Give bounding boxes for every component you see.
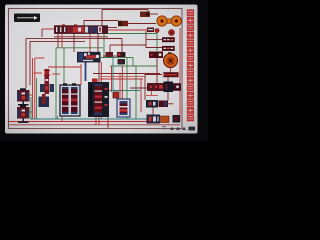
wire: red mid header: [100, 78, 143, 80]
wire: red mid-left header: [48, 66, 81, 68]
legend label (black arrow bar): [14, 14, 40, 23]
wire: top distribution line: [102, 9, 148, 11]
accumulator 1: [17, 88, 30, 105]
wire: teal bottom bus: [30, 118, 148, 120]
wire: red drop pair to servo: [121, 66, 123, 99]
wire: clutch row interlink: [152, 108, 154, 115]
wire: top line left drop: [101, 10, 103, 28]
wire: valve red branch right: [52, 73, 60, 75]
wire: green lower header: [110, 65, 158, 67]
wire: dark riser right: [144, 74, 146, 101]
wire: dark loop to shift solenoid: [98, 39, 122, 53]
wire: green header: [56, 47, 103, 49]
strainer assembly: [147, 82, 181, 93]
accumulator 2: [17, 105, 30, 123]
wire: filter box to pump: [150, 13, 158, 15]
wire: red drop to servo: [119, 74, 121, 100]
wire: dark red mid header: [93, 73, 160, 75]
wire: dark bottom bus: [9, 124, 180, 126]
valve body assembly B (tall piston): [88, 79, 109, 118]
sensor box (top center): [118, 21, 128, 26]
photo black background: [0, 0, 208, 141]
oil cooler bar 2: [162, 46, 175, 51]
wire: drop from feed: [41, 29, 43, 37]
shift solenoid box D: [118, 59, 126, 65]
clutch valve box 1: [146, 100, 158, 108]
wire: clutch row lead: [168, 103, 174, 105]
wire: teal riser: [112, 56, 114, 91]
small check valve box: [147, 28, 159, 33]
wire: right margin red riser: [179, 28, 181, 122]
valve body assembly A (twin pistons): [60, 83, 80, 116]
wire: mid red header 2: [100, 75, 145, 77]
wire: strainer lower leads: [146, 91, 158, 96]
lockup solenoid box (small dark red): [106, 52, 114, 57]
wire: strainer feed: [130, 87, 150, 89]
wire: red feed into top valve bar: [42, 28, 54, 30]
wire: pressure circle to cooler: [171, 38, 173, 40]
shift solenoid box C: [117, 52, 126, 57]
accumulator block (dark): [173, 115, 181, 123]
detent box below manual valve: [39, 94, 50, 107]
wire: green riser center: [126, 58, 128, 120]
filter box (top right): [140, 12, 150, 18]
wire: dark line under valve bar: [54, 36, 108, 38]
wire: valve red branch left: [34, 72, 43, 74]
white poster panel: [5, 5, 198, 134]
wire: regulator left lead: [145, 74, 162, 76]
wire: solenoid to shift valve link: [103, 55, 117, 57]
wire: cluster A drop green: [57, 116, 59, 119]
oil pump / converter dumbbell: [157, 16, 182, 26]
wire: red riser right: [140, 79, 142, 112]
inner frame border of diagram area: [9, 9, 183, 129]
wire: green shift header: [96, 57, 133, 59]
wire: cluster B drop pair: [96, 117, 99, 125]
wire: bar to governor line: [102, 29, 147, 31]
wire: red drop to shift box: [111, 66, 113, 92]
solenoid block: [77, 52, 101, 63]
wire: cooler to valve box: [173, 46, 175, 51]
wire: blue solenoid drop: [85, 62, 87, 81]
clutch valve box 2: [159, 101, 169, 108]
wire: second under-bar loop vertical: [29, 41, 31, 85]
wire: left loop vertical: [25, 38, 27, 88]
wire: red bottom bus: [9, 121, 150, 123]
wire: teal header: [95, 90, 140, 92]
wire: central riser pair: [100, 62, 102, 119]
wire: valve bar drop 4: [89, 34, 91, 52]
wire: green jog: [132, 58, 134, 67]
wire: upper loop over valve bar: [84, 21, 118, 26]
wire: valve bar drop 1: [57, 34, 59, 48]
wire: second under-bar loop horizontal: [30, 40, 85, 42]
wire: mid header to cooler lead: [110, 45, 146, 58]
servo valve C: [117, 99, 130, 117]
wire: central dark red riser: [98, 62, 100, 119]
pressure gauge circle: [169, 30, 175, 36]
wire: link to sensor box: [102, 27, 117, 29]
wire: left loop horizontal: [26, 37, 110, 39]
wire: valve bar drop 3: [73, 34, 75, 52]
wire: green main riser: [55, 48, 57, 119]
oil cooler bar 1: [162, 37, 175, 42]
wire: red stub to manual valve: [35, 57, 45, 59]
wire: right dark riser: [156, 58, 158, 83]
wire: drop to frame bottom: [107, 117, 109, 128]
brake band orange bar: [161, 116, 170, 123]
wire: sensor to pump link: [128, 23, 156, 25]
wire: accumulator2 feed: [29, 111, 33, 113]
wire: valve bar drop 2: [61, 34, 63, 48]
wire: green top header: [104, 34, 157, 58]
wire: accumulator1 feed: [29, 94, 33, 96]
title characters (vertical red): [187, 9, 194, 121]
wire: top line drop to filter box: [147, 10, 149, 13]
pressure regulator bar: [162, 72, 179, 77]
wire: strainer to clutch row: [167, 92, 169, 101]
wire: green long riser right: [135, 66, 137, 119]
wire: filter drop: [170, 68, 172, 73]
wire: red riser pair left A: [32, 58, 34, 119]
wire: lead to cooler bar 1: [146, 31, 162, 48]
brake servo box: [147, 115, 161, 124]
wire: regulator to strainer: [167, 77, 169, 81]
wire: valve bar drop 5: [97, 34, 99, 52]
main valve body bar: [54, 24, 108, 34]
wire: red riser pair left B: [34, 58, 36, 119]
oil filter (big orange circle): [164, 52, 178, 67]
small shift box (red): [113, 92, 119, 98]
manual valve: [40, 69, 54, 94]
wire: green riser beside detent: [30, 97, 32, 119]
wire: green riser left: [36, 78, 38, 119]
wire: cluster A drop red: [61, 116, 63, 122]
wire: red solenoid drop: [80, 64, 82, 85]
wire: green riser 2: [63, 48, 65, 85]
relief valve box: [149, 52, 163, 59]
maker mark glyphs (bottom right): [162, 127, 195, 131]
